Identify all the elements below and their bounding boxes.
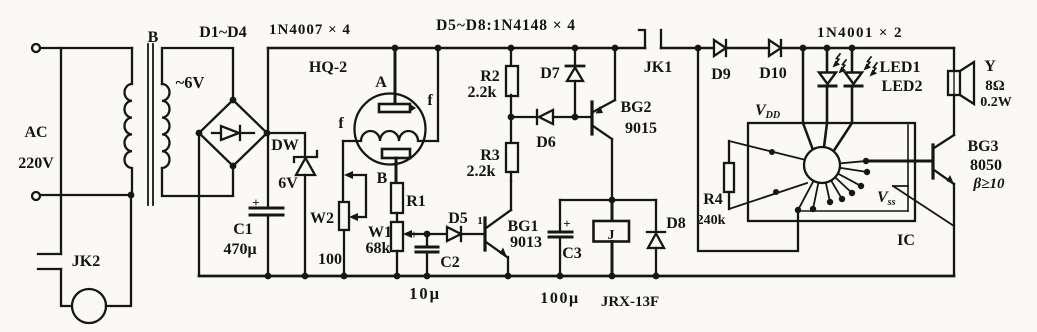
svg-text:C2: C2 [440, 254, 460, 271]
node D7 rail [572, 45, 579, 52]
wire IC to BG3 base [866, 160, 932, 163]
speaker Y [948, 71, 960, 95]
wire rail into IC left pad [803, 48, 813, 150]
svg-text:2.2k: 2.2k [468, 84, 497, 101]
capacitor C3 [559, 200, 561, 232]
svg-text:Y: Y [984, 58, 996, 75]
node bridge right vertex [264, 130, 271, 137]
svg-text:JK2: JK2 [72, 253, 100, 270]
wire to zener DW [268, 133, 305, 156]
load device circle [72, 289, 106, 323]
node LED1 rail [824, 45, 831, 52]
wire from top rail down to JK2 [60, 48, 62, 254]
wire W1 to rail [396, 251, 398, 276]
svg-text:0.2W: 0.2W [980, 95, 1012, 110]
svg-text:BG1: BG1 [507, 218, 538, 235]
svg-text:C1: C1 [233, 221, 253, 238]
svg-text:W1: W1 [368, 224, 392, 241]
wire bottom AC to primary junction [40, 194, 131, 196]
wire JK2 to load [61, 269, 72, 306]
heater filament f-f [343, 131, 438, 141]
node DW bottom [302, 273, 309, 280]
svg-text:1N4001 × 2: 1N4001 × 2 [817, 25, 903, 41]
AC input terminal top [32, 44, 40, 52]
svg-text:D7: D7 [540, 65, 560, 82]
node C2 bottom [424, 273, 431, 280]
node D7 bottom [572, 114, 579, 121]
node BG2 emitter rail [612, 45, 619, 52]
svg-text:2.2k: 2.2k [467, 163, 496, 180]
transformer B core [147, 44, 149, 205]
node VDD tap rail [695, 45, 702, 52]
svg-text:HQ-2: HQ-2 [309, 59, 347, 76]
svg-text:B: B [377, 170, 388, 187]
resistor R4 [728, 141, 730, 163]
svg-text:1N4007 × 4: 1N4007 × 4 [269, 22, 351, 38]
svg-text:AC: AC [24, 124, 47, 141]
node bridge bottom vertex [230, 163, 237, 170]
svg-text:JRX-13F: JRX-13F [601, 294, 659, 310]
gas sensor HQ-2 envelope [355, 94, 426, 165]
AC input terminal bottom [32, 192, 40, 200]
wire top AC to transformer primary [40, 47, 132, 49]
wire f right to rail [437, 48, 439, 141]
svg-text:C3: C3 [562, 245, 582, 262]
svg-text:R4: R4 [703, 191, 723, 208]
svg-text:10μ: 10μ [409, 284, 441, 303]
svg-text:D8: D8 [666, 215, 686, 232]
capacitor C1 [250, 207, 283, 210]
diode D8 [655, 200, 657, 232]
zener diode DW [294, 151, 317, 162]
IC bonding wires [729, 141, 867, 210]
relay contact JK1 [639, 30, 645, 48]
wire f left down [342, 141, 344, 202]
node LED wire 1 [800, 45, 807, 52]
resistor R1 [391, 183, 403, 213]
IC outer box [748, 123, 915, 221]
node C2 junction [424, 231, 431, 238]
top rail left segment [268, 47, 645, 50]
diode D7 [574, 48, 576, 66]
connector JK2 upper prong [38, 253, 61, 255]
potentiometer W1 body [391, 222, 403, 251]
svg-text:+: + [563, 216, 570, 231]
bridge internal diode [212, 132, 254, 134]
transistor BG2 [590, 102, 593, 134]
svg-text:6V: 6V [278, 175, 298, 192]
wire W2 to rail [343, 230, 345, 276]
resistor R2 [510, 48, 512, 66]
svg-text:W2: W2 [310, 210, 334, 227]
LED2 flash arrows [866, 57, 871, 68]
svg-text:240k: 240k [697, 213, 726, 228]
node LED2 rail [849, 45, 856, 52]
svg-text:R2: R2 [480, 68, 500, 85]
wire VSS tick [893, 185, 908, 187]
svg-text:8Ω: 8Ω [985, 78, 1005, 94]
node BG2 collector junction [609, 197, 616, 204]
node R2 rail [508, 45, 515, 52]
wire bridge minus to bottom rail [198, 133, 200, 276]
wire electrode A lead [394, 48, 397, 105]
svg-text:R3: R3 [480, 147, 500, 164]
IC inner edge lines [907, 125, 909, 211]
svg-text:LED1: LED1 [880, 59, 921, 76]
diode D6 [511, 116, 537, 118]
W2 wiper loop [352, 175, 366, 217]
relay coil J [611, 200, 614, 221]
wire electrode B lead [395, 158, 398, 183]
svg-text:f: f [427, 92, 433, 109]
IC chip circle [804, 147, 840, 183]
wire R1 to W1 [396, 213, 398, 222]
svg-text:8050: 8050 [970, 157, 1002, 174]
bridge rectifier D1~D4 diamond [199, 100, 267, 166]
svg-text:9013: 9013 [510, 234, 542, 251]
node bridge top vertex [230, 97, 237, 104]
diode D5 [447, 227, 461, 241]
wire load to primary junction [106, 195, 131, 306]
svg-text:1: 1 [477, 215, 483, 227]
node f rail [435, 45, 442, 52]
svg-text:+: + [410, 227, 417, 242]
node relay bottom [609, 273, 616, 280]
svg-text:DW: DW [271, 137, 299, 154]
node D8 bottom [653, 273, 660, 280]
svg-text:R1: R1 [406, 193, 426, 210]
svg-text:JK1: JK1 [644, 59, 672, 76]
node primary/AC junction [128, 192, 135, 199]
diode D10 [769, 40, 781, 56]
node BG1 emitter [505, 273, 512, 280]
transistor Q BG1 [483, 218, 486, 250]
svg-text:~6V: ~6V [176, 73, 205, 92]
svg-text:100: 100 [318, 251, 342, 268]
resistor R3 [510, 117, 512, 143]
transformer B primary winding [124, 48, 132, 195]
node R2/R3/D6 junction [508, 114, 515, 121]
node bridge left vertex [196, 130, 203, 137]
svg-text:BG3: BG3 [967, 138, 998, 155]
svg-text:IC: IC [897, 232, 915, 249]
svg-text:f: f [338, 115, 344, 132]
diode D9 [714, 40, 726, 56]
wire bridge plus vertical [267, 48, 269, 208]
svg-text:D1~D4: D1~D4 [199, 24, 246, 41]
W1 wiper arrow [403, 230, 412, 238]
wire VSS to emitter line [893, 186, 954, 226]
svg-text:BG2: BG2 [620, 99, 651, 116]
potentiometer W2 body [339, 202, 349, 230]
wire secondary top to bridge top vertex [162, 48, 233, 100]
capacitor C2 [426, 234, 428, 247]
svg-text:9015: 9015 [625, 120, 657, 137]
wire secondary bottom to bridge bottom vertex [162, 166, 233, 196]
top rail right segment [661, 47, 954, 50]
node W1 bottom [394, 273, 401, 280]
wire collector node horizontal [560, 199, 656, 201]
node W2 bottom [341, 273, 348, 280]
IC bond pads [769, 149, 870, 213]
LED LED1 [826, 48, 829, 72]
svg-text:B: B [148, 29, 159, 46]
svg-text:220V: 220V [18, 155, 54, 172]
svg-text:D5: D5 [448, 210, 468, 227]
svg-text:D9: D9 [711, 66, 731, 83]
svg-text:100μ: 100μ [540, 290, 579, 307]
connector JK2 lower prong [38, 268, 61, 270]
node C1 bottom [265, 273, 272, 280]
transformer B secondary winding [162, 84, 170, 168]
node A top rail [392, 45, 399, 52]
svg-text:β≥10: β≥10 [973, 176, 1005, 192]
LED LED2 [851, 48, 854, 72]
LED1 flash arrows [835, 54, 840, 65]
svg-text:A: A [375, 74, 387, 91]
wire VDD rail down and under IC [698, 48, 798, 251]
node C3 bottom [557, 273, 564, 280]
svg-text:470μ: 470μ [223, 241, 256, 258]
svg-text:D6: D6 [536, 134, 556, 151]
svg-text:+: + [252, 195, 259, 210]
electrode A plate [379, 104, 410, 112]
electrode B plate [382, 149, 410, 158]
svg-text:D5~D8:1N4148 × 4: D5~D8:1N4148 × 4 [436, 17, 576, 34]
svg-text:D10: D10 [759, 65, 787, 82]
bottom rail [199, 275, 954, 278]
svg-text:LED2: LED2 [882, 78, 923, 95]
transistor BG3 [953, 95, 955, 135]
wire rail corner to speaker [953, 48, 955, 71]
svg-text:68k: 68k [366, 240, 391, 257]
